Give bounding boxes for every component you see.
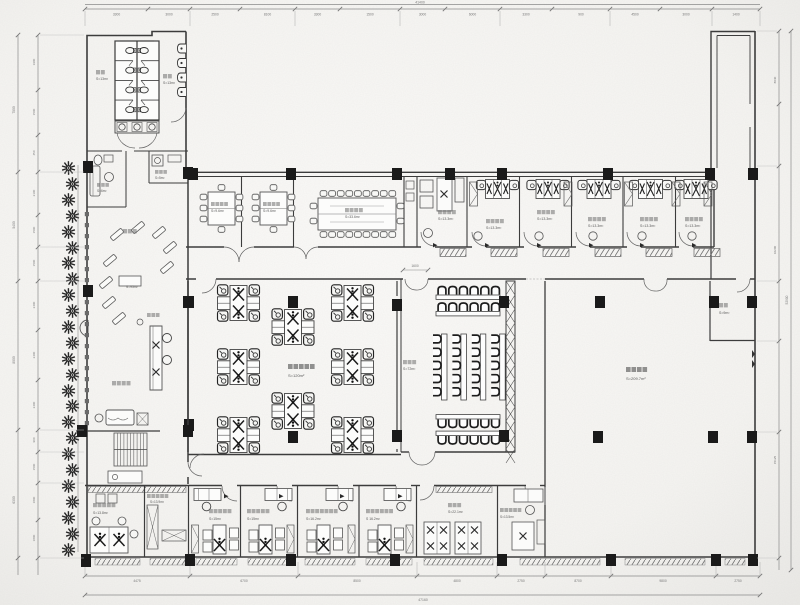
label: R&D center: [626, 367, 647, 372]
extension lines left: [40, 34, 84, 36]
label: archive small: [147, 313, 160, 317]
shower tray: [152, 155, 163, 166]
toilet stall core: [115, 41, 159, 120]
svg-text:8700: 8700: [574, 579, 582, 583]
partition x=188.5: [188, 486, 190, 557]
partition: offices at x=467: [466, 177, 468, 247]
dimension chain: bottom segments: [85, 575, 760, 577]
columns: west line: [83, 161, 93, 173]
meeting table small room x=208: [208, 192, 235, 225]
sink counter: [115, 121, 159, 133]
label: front desk: [112, 381, 131, 385]
svg-text:S=6m²: S=6m²: [97, 189, 106, 193]
conference table: [318, 198, 396, 230]
stairs: [114, 433, 147, 466]
door swing markers (small triangles): [433, 243, 438, 247]
svg-text:1600: 1600: [411, 264, 419, 268]
door arc: meeting room double door: [224, 247, 239, 262]
radiator hatch segments along south wall: [95, 559, 140, 566]
stall divider y=80: [115, 79, 133, 81]
wall: top wing north (double): [186, 171, 714, 173]
svg-text:7500: 7500: [12, 106, 16, 114]
door arcs bottom row (opening down into rooms): [222, 486, 237, 501]
svg-text:3000: 3000: [165, 13, 173, 17]
svg-text:S=13.8m²: S=13.8m²: [93, 511, 109, 515]
label: machine room: [719, 303, 728, 307]
svg-text:52900: 52900: [785, 295, 789, 304]
label: CFO office: [500, 508, 521, 512]
columns: top wall: [188, 168, 198, 180]
svg-text:S 16.2m²: S 16.2m²: [366, 517, 381, 521]
toilet fixtures row 3: [126, 87, 135, 93]
svg-text:S=13.3m²: S=13.3m²: [640, 224, 656, 228]
svg-text:8100: 8100: [264, 13, 272, 17]
svg-text:1800: 1800: [32, 496, 36, 503]
svg-text:S=9.6m²: S=9.6m²: [211, 209, 225, 213]
svg-text:47160: 47160: [418, 598, 428, 602]
svg-text:15125: 15125: [773, 455, 777, 464]
office wardrobes: [470, 182, 478, 206]
partition: closet/office1: [416, 177, 418, 247]
partition x=359: [358, 486, 360, 557]
columns: training: [499, 296, 509, 308]
label: office 5: [640, 217, 658, 221]
svg-text:3000: 3000: [419, 13, 427, 17]
urinals: [178, 44, 187, 53]
label: womens wc: [96, 70, 105, 74]
svg-text:S=13m²: S=13m²: [163, 81, 176, 85]
svg-text:S=72m²: S=72m²: [403, 367, 416, 371]
svg-text:6000: 6000: [469, 13, 477, 17]
radiator below office wall x=694: [694, 249, 720, 257]
svg-text:900: 900: [578, 13, 584, 17]
stall divider y=61: [115, 60, 133, 62]
door arc: training room N double: [405, 279, 416, 290]
svg-text:S=13.3m²: S=13.3m²: [588, 224, 604, 228]
archive room cabinets: [147, 505, 158, 549]
wall: central block east (double): [396, 281, 398, 296]
opening jamb marks: [526, 278, 545, 280]
outer wall: toilet block right: [185, 32, 187, 173]
svg-text:S=209.7m²: S=209.7m²: [626, 376, 646, 381]
planting strip line: [77, 165, 79, 552]
label: office 3: [537, 210, 555, 214]
extension lines right: [757, 30, 777, 32]
label: mens wc: [163, 74, 172, 78]
dimension chain: bottom overall: [85, 594, 760, 596]
door arc: training south double: [409, 452, 422, 465]
admin office desk group: [90, 527, 128, 553]
wall: central block west: [187, 281, 189, 452]
outer wall: toilet block top: [87, 32, 186, 136]
svg-text:3300: 3300: [314, 13, 322, 17]
svg-text:1500: 1500: [32, 108, 36, 115]
svg-text:1500: 1500: [366, 13, 374, 17]
label: admin archive: [147, 494, 168, 498]
training col group 4: [500, 334, 506, 400]
glazed hatch band admin rooms: [88, 487, 186, 493]
svg-text:S=13.3m²: S=13.3m²: [537, 217, 553, 221]
svg-text:1500: 1500: [32, 463, 36, 470]
svg-text:S=9.6m²: S=9.6m²: [263, 209, 277, 213]
label: GM office: [366, 509, 393, 513]
office desk cx=548: [536, 180, 560, 199]
svg-text:900: 900: [32, 437, 36, 442]
training rows bottom: [438, 420, 446, 428]
door arc: NE room: [737, 279, 750, 292]
label: office B: [247, 509, 269, 513]
CFO office furniture: [514, 489, 543, 502]
label: training room: [403, 360, 416, 364]
door arc: office door at 627 (opens into office): [627, 232, 641, 246]
image area table: [119, 276, 141, 286]
partition: offices at x=675.5: [675, 177, 677, 247]
partition x=297.5: [297, 486, 299, 557]
svg-text:2400: 2400: [32, 351, 36, 358]
wall: bottom row north y485.5: [85, 485, 222, 487]
partition x=497.5: [497, 486, 499, 557]
training col group 2: [461, 334, 467, 400]
reception desk: [150, 326, 162, 390]
wall: training east lattice: [506, 281, 515, 452]
svg-text:S=9m²: S=9m²: [719, 311, 730, 315]
door arc: office door at 679 (opens into office): [679, 232, 693, 246]
office desk cx=599: [587, 180, 611, 199]
office desk cx=497.5: [486, 180, 510, 199]
partition: offices at x=571.5: [571, 177, 573, 247]
svg-text:S=13.3m²: S=13.3m²: [685, 224, 701, 228]
svg-text:1900: 1900: [32, 58, 36, 65]
wall: corridor south y279: [186, 278, 196, 280]
outer wall: east facade: [754, 31, 756, 557]
label: director office: [306, 509, 338, 513]
svg-text:S=15m²: S=15m²: [247, 517, 260, 521]
svg-text:9800: 9800: [659, 579, 667, 583]
bottom office furniture room3: [326, 489, 353, 501]
svg-text:450: 450: [32, 150, 36, 155]
partition: offices at x=519.5: [519, 177, 521, 247]
door arc: office door at 524 (opens into office): [524, 232, 538, 246]
label: meeting room 1: [211, 202, 228, 206]
svg-text:S=13.5m²: S=13.5m²: [500, 515, 514, 519]
svg-text:S=5m²: S=5m²: [155, 176, 164, 180]
closet niche rects x406: [406, 181, 414, 189]
svg-text:S=13.3m²: S=13.3m²: [486, 226, 502, 230]
radiator below office wall x=440: [440, 249, 466, 257]
label: rest room: [97, 183, 109, 187]
east wall door marks: [752, 350, 755, 368]
training col group 3: [480, 334, 486, 400]
label: shower: [155, 170, 167, 174]
shower room walls: [148, 151, 150, 183]
label: meeting room 2: [263, 202, 280, 206]
svg-text:S=13.3m²: S=13.3m²: [438, 217, 454, 221]
toilet fixtures row 4: [126, 107, 135, 113]
toilet fixtures row 2: [126, 67, 135, 73]
workstation clusters: [218, 285, 260, 321]
copier desk lower lobby: [108, 471, 142, 483]
columns: south wall: [81, 554, 91, 566]
svg-text:1500: 1500: [32, 226, 36, 233]
training col group 1: [442, 334, 448, 400]
label: admin supervisor: [93, 503, 115, 507]
rest room walls: [87, 150, 122, 152]
columns: central block: [184, 296, 194, 308]
door arc: office door at 472 (opens into office): [472, 232, 486, 246]
bottom office furniture room4: [384, 489, 411, 501]
svg-text:3000: 3000: [682, 13, 690, 17]
svg-text:1800: 1800: [32, 534, 36, 541]
columns: wing east line: [183, 167, 193, 179]
dimension chain: top overall: [85, 4, 760, 6]
radiator below office wall x=543: [543, 249, 569, 257]
wall: R&D west: [544, 281, 546, 557]
dim 1600: [403, 269, 428, 271]
svg-text:2750: 2750: [734, 579, 742, 583]
toilet entry door arcs: [117, 133, 135, 148]
partition: meeting room 2/3: [293, 177, 295, 247]
svg-text:5400: 5400: [12, 221, 16, 229]
door arc: mens wc: [171, 108, 186, 122]
extension lines top: [84, 11, 86, 26]
wall: central block south: [188, 454, 401, 456]
door arc: central block NW: [202, 279, 216, 293]
svg-text:2400: 2400: [32, 401, 36, 408]
meeting table small room x=260: [260, 192, 287, 225]
radiator below office wall x=646: [646, 249, 672, 257]
svg-text:4800: 4800: [453, 579, 461, 583]
svg-text:8500: 8500: [353, 579, 361, 583]
partition x=144.5: [144, 486, 146, 557]
door arc: R&D double door: [644, 279, 655, 291]
svg-text:S=13m²: S=13m²: [96, 77, 109, 81]
wall: wing east x188: [187, 172, 189, 462]
northeast inner slot wall: [749, 36, 751, 105]
dimension chain: left outer: [17, 35, 19, 575]
svg-text:8040: 8040: [773, 76, 777, 83]
outer wall: building bottom edge: [85, 556, 758, 558]
partition: conference/closet: [403, 177, 405, 247]
svg-text:3300: 3300: [522, 13, 530, 17]
label: office 2: [486, 219, 504, 223]
office 1 furniture: [420, 180, 433, 192]
wall: top wing south with door openings: [186, 246, 224, 248]
partition x=240.5: [240, 486, 242, 557]
svg-text:1400: 1400: [732, 13, 740, 17]
wall: training south: [401, 451, 409, 453]
svg-text:2500: 2500: [211, 13, 219, 17]
landscaping tree row along west facade: [62, 161, 75, 175]
machine room walls: [709, 281, 711, 341]
outer wall: west facade: [86, 135, 88, 558]
dimension chain: right overall: [790, 31, 792, 570]
svg-text:4475: 4475: [133, 579, 141, 583]
entrance D door: [80, 320, 88, 336]
rest room furniture: wc + sofa: [94, 155, 102, 165]
svg-text:10200: 10200: [773, 245, 777, 254]
svg-text:6300: 6300: [12, 496, 16, 504]
label: finance room: [448, 503, 461, 507]
stall divider y=100: [115, 99, 133, 101]
office desk cx=696: [684, 180, 708, 199]
svg-text:41400: 41400: [415, 1, 425, 5]
trash circles in offices: [474, 232, 482, 240]
outer wall: northeast loop: [711, 32, 755, 173]
svg-text:S=22.1m²: S=22.1m²: [448, 510, 464, 514]
radiator below office wall x=491: [491, 249, 517, 257]
svg-text:S=13.9m²: S=13.9m²: [150, 500, 164, 504]
svg-text:S=120m²: S=120m²: [288, 373, 305, 378]
svg-text:S=93m²: S=93m²: [126, 285, 139, 289]
office desk cx=650.5: [639, 180, 663, 199]
label: open office area: [288, 364, 315, 369]
columns: R&D grid: [595, 296, 605, 308]
dimension chain: right outer: [778, 31, 780, 570]
label: office A: [209, 509, 231, 513]
door arc: reception to corridor: [188, 462, 202, 476]
label: image area: [123, 229, 137, 233]
label: office 1: [438, 210, 456, 214]
door arc: central south door: [190, 454, 204, 468]
toilet fixtures row 1: [126, 48, 135, 54]
door arc: office door at 421 (opens into office): [421, 232, 435, 246]
door arc: conference double door: [294, 247, 306, 259]
svg-text:S=16.2m²: S=16.2m²: [306, 517, 322, 521]
partition: offices at x=623: [622, 177, 624, 247]
dimension chain: left inner: [37, 35, 39, 575]
glazed hatch band finance room: [436, 487, 492, 493]
image area benches: [110, 228, 124, 241]
svg-text:2100: 2100: [32, 189, 36, 196]
partition: meeting room 1/2: [241, 177, 243, 247]
curtain wall mullions: [85, 212, 89, 216]
svg-text:6700: 6700: [240, 579, 248, 583]
label: conference room: [345, 208, 363, 212]
wall: top wing east end: [713, 177, 715, 247]
svg-text:1500: 1500: [32, 259, 36, 266]
finance room desks: [424, 522, 450, 554]
stairs landing wall: [76, 430, 160, 432]
partition x=416.5: [416, 486, 418, 557]
svg-text:2400: 2400: [32, 301, 36, 308]
svg-text:4500: 4500: [631, 13, 639, 17]
small plant marks: [137, 319, 143, 325]
label: office 4: [588, 217, 606, 221]
bottom office furniture room2: [265, 489, 292, 501]
dimension chain: top segments: [85, 8, 760, 10]
svg-text:2750: 2750: [517, 579, 525, 583]
door arc: office door at 576 (opens into office): [576, 232, 590, 246]
waiting sofa: [106, 410, 134, 425]
bottom office furniture room1: [194, 489, 221, 501]
svg-text:8000: 8000: [12, 356, 16, 364]
svg-text:S=33.6m²: S=33.6m²: [345, 215, 361, 219]
label: office 6: [685, 217, 703, 221]
svg-text:3300: 3300: [113, 13, 121, 17]
radiator below office wall x=595: [595, 249, 621, 257]
training rows top: [438, 287, 446, 295]
door marks on west wall: [544, 487, 546, 505]
svg-text:S=15m²: S=15m²: [209, 517, 222, 521]
